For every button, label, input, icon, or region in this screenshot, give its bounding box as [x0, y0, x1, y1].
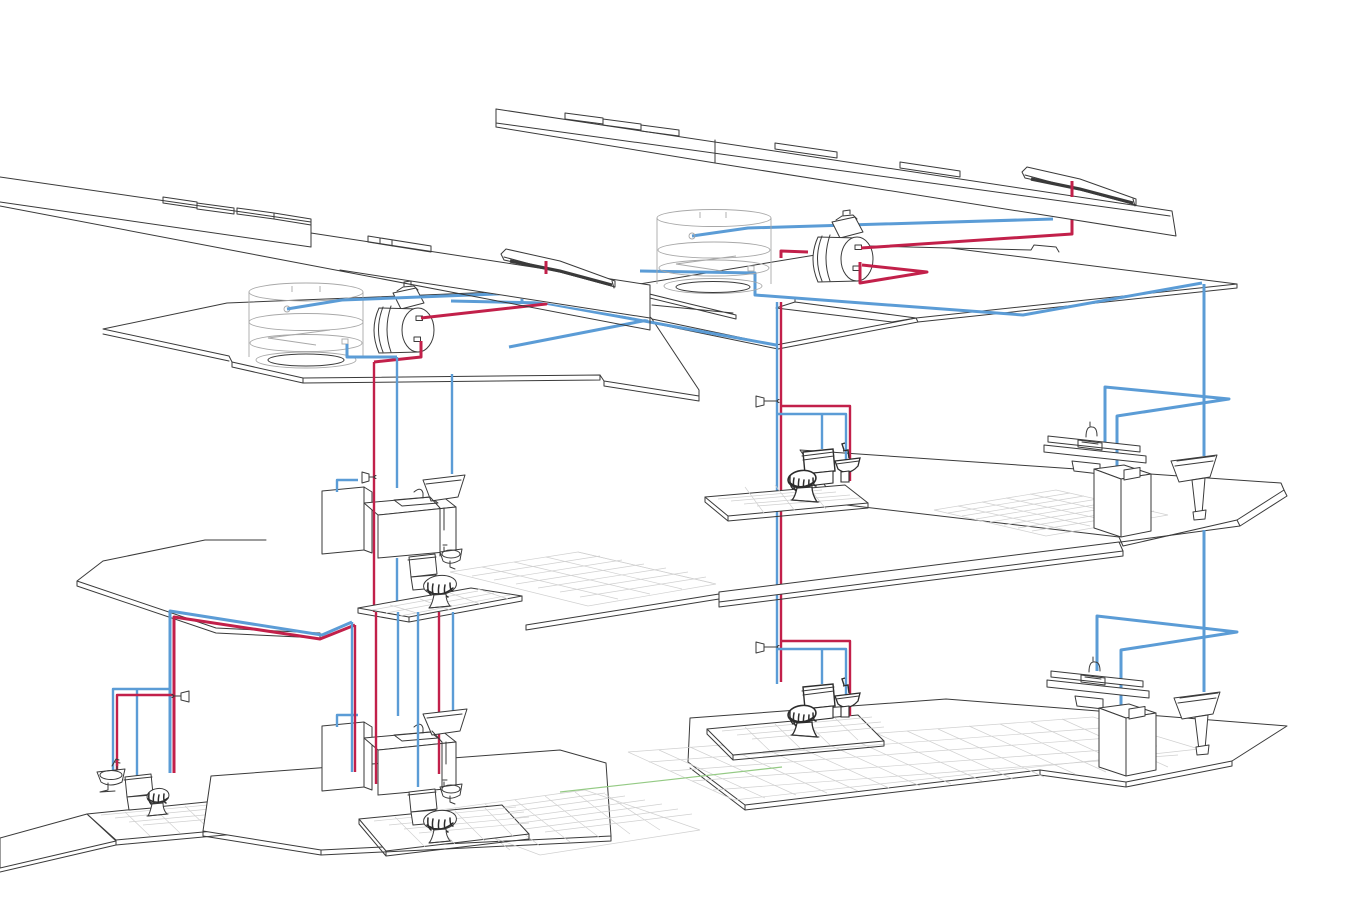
cold water stub at kitchen ground — [337, 715, 358, 727]
toilet T4 ground far-left — [124, 774, 170, 816]
toilet T1 level-2 center — [787, 449, 835, 502]
cold water drop to level-2 bath — [776, 302, 778, 684]
cold water branch to basin S1 — [777, 414, 846, 481]
floor walkway strip level-1 — [719, 542, 1123, 607]
curb blocks on beam A — [565, 113, 960, 177]
tile grid ground left — [425, 790, 700, 855]
pedestal sink P2 ground — [1174, 692, 1220, 755]
wall lavatory L2 ground — [423, 709, 467, 790]
wall lavatory L1 level-1 — [423, 475, 465, 556]
kitchen cabinet ground — [322, 722, 372, 791]
bath plinth ground left (under toilet T4) — [87, 800, 258, 845]
cold water risers center (ground) — [397, 612, 399, 716]
cold water stub at kitchen level-1 — [337, 480, 358, 492]
hot water recirculation loop U2 — [860, 262, 927, 283]
cold water riser right (upper run) — [1203, 284, 1206, 456]
shower head level-2 center — [756, 396, 779, 407]
cold water riser center-left lower part — [396, 558, 398, 612]
counter sink C1 level-1 — [1044, 422, 1146, 474]
ceiling slab level-2 right (plate D) — [621, 245, 1237, 349]
tile grid on plate G east — [450, 552, 716, 606]
bath slab strip under toilet T2 — [358, 588, 522, 622]
wall basin S1 level-2 center — [835, 443, 860, 482]
hot water branch to basin S3 — [781, 641, 850, 716]
floor slab level-1 right (plate F) — [800, 450, 1287, 577]
floor slab level-1 left (plate G) — [77, 540, 719, 638]
roof ramp beam A (right) — [496, 109, 1176, 236]
wall basin S4 ground far-left — [97, 759, 125, 792]
shower head ground center — [756, 642, 779, 653]
louver vent W2 — [1022, 167, 1136, 206]
hot water riser center-left lower part — [373, 400, 375, 612]
ceiling slab level-2 left (plate E) — [103, 287, 699, 401]
cold water elbow from coil 1 — [347, 344, 397, 357]
hot water pipe heater U1 to roof vent — [421, 261, 546, 318]
hot water risers center (ground) — [375, 612, 377, 784]
cold water riser right (ground run) — [1203, 530, 1206, 692]
kitchen counter sink level-1 — [364, 489, 456, 558]
water heater U2 — [813, 210, 873, 282]
toilet T3 ground center — [787, 684, 835, 737]
floor slab ground left-edge piece — [0, 814, 116, 872]
cold water riser right column level-1 (Z run) — [1105, 387, 1229, 473]
helical coil 1 — [249, 283, 363, 368]
shower unit box B1 level-1 — [1094, 465, 1151, 537]
hot water branch to basin S1 — [781, 406, 850, 481]
shower head level-1 left — [362, 472, 376, 483]
cold water stub to toilet T3 tank — [821, 649, 823, 684]
kitchen cabinet level-1 — [322, 487, 372, 554]
cold water line to level-2 bath drop — [451, 301, 776, 345]
pedestal sink P1 level-1 — [1171, 455, 1217, 520]
cold water riser center-left — [396, 357, 398, 488]
wall basin S3 ground center — [835, 678, 860, 717]
water heater U1 — [374, 281, 434, 353]
cold water stub to toilet T1 tank — [821, 414, 823, 449]
cold water main on plate D — [640, 271, 1202, 315]
cold water Z-run right ground — [1097, 616, 1237, 710]
hot water riser drop center-left — [374, 341, 421, 362]
wall basin S5 ground center-left — [440, 780, 462, 804]
cold water branch coil to beam (plate D) — [692, 219, 1053, 236]
cold water branch to basin S3 — [777, 649, 846, 716]
refrigerant line (green) — [560, 767, 782, 792]
shower head ground left — [172, 691, 189, 702]
hot water drop to level-2 bath — [780, 302, 782, 682]
bath plinth ground center-left (under toilet T5) — [359, 805, 529, 856]
hot water pipe heater U2 toward roof vent — [861, 219, 1072, 248]
cold water crossover line — [509, 320, 648, 347]
louver vent W1 — [501, 249, 615, 288]
toilet T2 level-1 left — [408, 554, 457, 608]
cold water main on plate E — [287, 293, 522, 309]
hot/cold mains under level-1 slab to west bath — [113, 611, 355, 776]
wall basin S2 level-1 — [440, 545, 462, 569]
kitchen counter sink ground — [364, 724, 456, 795]
cold water riser to lavatory L1 — [451, 374, 453, 474]
tile grid on plate F — [934, 490, 1168, 536]
shower unit box B2 ground — [1099, 704, 1156, 776]
bath plinth level-1 center (under toilet T1) — [705, 483, 868, 521]
floor slab ground left (main) — [203, 750, 611, 855]
curb blocks on beam B — [163, 197, 431, 252]
hot water riser center-left — [373, 362, 375, 400]
hot water pipe stub behind coil (plate D) — [781, 251, 808, 258]
tile grid ground right — [628, 717, 1199, 800]
toilet T5 ground center-left — [408, 789, 457, 843]
roof ramp beam B (left assembly) — [0, 177, 650, 330]
hot water vent pipe at W1 — [545, 261, 548, 274]
floor slab ground right — [688, 699, 1287, 810]
hot water vent pipe at W2 — [1071, 181, 1074, 197]
bath plinth ground center (under toilet T3) — [707, 715, 884, 760]
helical coil 2 — [657, 210, 771, 294]
counter sink C2 ground — [1047, 657, 1149, 709]
